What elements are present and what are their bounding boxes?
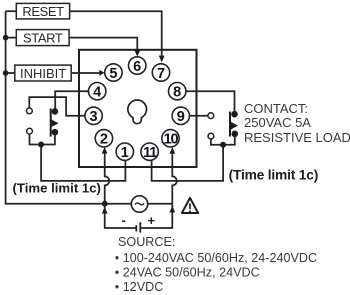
svg-text:• 100-240VAC 50/60Hz, 24-240VD: • 100-240VAC 50/60Hz, 24-240VDC — [115, 251, 317, 265]
svg-text:2: 2 — [100, 132, 108, 148]
svg-text:11: 11 — [143, 145, 157, 161]
svg-text:+: + — [148, 213, 156, 228]
svg-text:6: 6 — [133, 59, 141, 75]
svg-text:7: 7 — [157, 66, 165, 82]
svg-text:RESET: RESET — [22, 4, 64, 19]
svg-text:(Time limit 1c): (Time limit 1c) — [229, 168, 319, 183]
svg-text:9: 9 — [177, 109, 185, 125]
svg-text:5: 5 — [109, 66, 117, 82]
svg-text:250VAC 5A: 250VAC 5A — [244, 115, 311, 130]
svg-text:8: 8 — [173, 85, 181, 101]
svg-text:CONTACT:: CONTACT: — [244, 101, 308, 116]
svg-text:RESISTIVE LOAD: RESISTIVE LOAD — [244, 130, 350, 145]
svg-text:1: 1 — [121, 145, 129, 161]
svg-text:• 24VAC 50/60Hz, 24VDC: • 24VAC 50/60Hz, 24VDC — [115, 266, 260, 280]
svg-text:10: 10 — [164, 132, 179, 148]
svg-text:• 12VDC: • 12VDC — [115, 280, 164, 294]
svg-text:4: 4 — [93, 85, 101, 101]
svg-text:START: START — [23, 30, 63, 45]
svg-text:-: - — [122, 212, 126, 227]
svg-text:SOURCE:: SOURCE: — [118, 235, 175, 249]
svg-text:INHIBIT: INHIBIT — [20, 66, 66, 81]
svg-text:3: 3 — [90, 109, 98, 125]
svg-text:(Time limit 1c): (Time limit 1c) — [13, 180, 101, 195]
